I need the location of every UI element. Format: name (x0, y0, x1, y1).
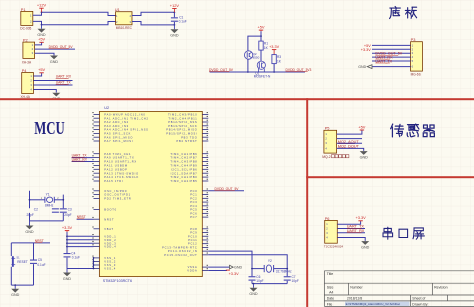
svg-text:TIM2_CH4/PB11: TIM2_CH4/PB11 (168, 116, 197, 120)
svg-text:C5: C5 (38, 258, 42, 262)
svg-text:E:\STM32\MQ2_Alarm\MCU_V2.SchD: E:\STM32\MQ2_Alarm\MCU_V2.SchDoc (346, 302, 401, 306)
svg-text:VDD_1: VDD_1 (104, 234, 116, 238)
svg-text:PA7 SPI1_MOSI: PA7 SPI1_MOSI (104, 139, 133, 143)
svg-text:VSS_4: VSS_4 (104, 267, 116, 271)
svg-text:+5V: +5V (38, 37, 45, 42)
svg-text:MB10-REC: MB10-REC (116, 26, 133, 30)
svg-text:U1: U1 (115, 7, 120, 12)
svg-text:PC15-OSC32_OUT: PC15-OSC32_OUT (164, 253, 197, 257)
svg-text:DVDD_OUT_3V3: DVDD_OUT_3V3 (286, 68, 312, 72)
svg-text:PB13/SPI2_SCK: PB13/SPI2_SCK (168, 124, 197, 128)
svg-text:20pF: 20pF (64, 213, 71, 217)
svg-text:VDDA: VDDA (187, 269, 197, 273)
svg-text:Revision: Revision (434, 285, 447, 289)
svg-text:10pF: 10pF (292, 279, 299, 283)
svg-text:GND: GND (25, 230, 34, 234)
svg-text:PA15 JTDI: PA15 JTDI (104, 179, 123, 183)
svg-text:I2C1_SDA/PB7: I2C1_SDA/PB7 (171, 171, 198, 175)
svg-text:Date: Date (327, 297, 334, 301)
svg-text:PA8 TIM1_CH1: PA8 TIM1_CH1 (104, 152, 131, 156)
svg-text:OSC_IN/PD0: OSC_IN/PD0 (104, 189, 127, 193)
svg-text:Drawn By:: Drawn By: (412, 302, 428, 306)
svg-text:PA1 ADC_IN1 TIM2_CH2: PA1 ADC_IN1 TIM2_CH2 (104, 116, 148, 120)
svg-text:Y1: Y1 (46, 193, 50, 197)
svg-text:32.768KHz: 32.768KHz (276, 269, 292, 273)
svg-text:+3.3V: +3.3V (62, 225, 73, 230)
svg-text:NRST: NRST (35, 239, 44, 243)
svg-text:TIM2_CH1/PB0: TIM2_CH1/PB0 (170, 175, 197, 179)
svg-text:+3.3V: +3.3V (361, 48, 371, 52)
svg-text:PC5: PC5 (190, 208, 197, 212)
svg-text:VSS_2: VSS_2 (104, 260, 116, 264)
svg-text:+3.3V: +3.3V (355, 215, 366, 220)
svg-text:PA9 USART1_TX: PA9 USART1_TX (104, 156, 134, 160)
svg-text:UART_TX: UART_TX (375, 59, 392, 63)
svg-text:Title: Title (327, 272, 334, 276)
svg-text:DVDD_OUT_5V: DVDD_OUT_5V (209, 68, 234, 72)
svg-text:PA14 JTCK-SWCLK: PA14 JTCK-SWCLK (104, 175, 139, 179)
svg-text:VDD_3: VDD_3 (104, 241, 116, 245)
svg-text:VSS_3: VSS_3 (104, 263, 116, 267)
svg-text:PA11 USBDM: PA11 USBDM (104, 163, 128, 167)
svg-text:MQ-2: MQ-2 (322, 155, 331, 159)
svg-text:RESET: RESET (17, 260, 28, 264)
svg-text:PC6: PC6 (190, 211, 197, 215)
svg-text:C3: C3 (68, 208, 72, 212)
svg-text:GND: GND (11, 293, 20, 297)
svg-text:PA12 USBDP: PA12 USBDP (104, 167, 127, 171)
svg-text:MQ2_DOUT: MQ2_DOUT (338, 144, 360, 148)
svg-text:PA2 ADC_IN2: PA2 ADC_IN2 (104, 120, 129, 124)
svg-text:Sheet of: Sheet of (412, 297, 425, 301)
svg-text:BOOT0: BOOT0 (104, 208, 117, 212)
svg-text:VSSA: VSSA (188, 265, 198, 269)
svg-text:A4: A4 (329, 290, 333, 294)
svg-text:GND: GND (361, 246, 370, 250)
svg-text:PC12: PC12 (188, 242, 198, 246)
svg-text:GND: GND (249, 292, 258, 296)
svg-text:PA5 SPI1_SCK: PA5 SPI1_SCK (104, 131, 131, 135)
svg-text:DC-005: DC-005 (20, 27, 31, 31)
svg-text:MOSFET-N: MOSFET-N (254, 75, 271, 79)
svg-text:NRST: NRST (77, 215, 86, 219)
svg-text:TIM2_CH3/PB10: TIM2_CH3/PB10 (168, 112, 197, 116)
svg-text:Size: Size (327, 285, 334, 289)
svg-text:P2: P2 (23, 38, 28, 43)
svg-text:PB3 TDO: PB3 TDO (181, 135, 197, 139)
svg-text:PA10 USART1_RX: PA10 USART1_RX (104, 160, 137, 164)
svg-text:P3: P3 (411, 37, 416, 42)
svg-text:DVDD_OUT_5V: DVDD_OUT_5V (49, 45, 74, 49)
svg-text:PC4: PC4 (190, 204, 197, 208)
svg-text:TJC3224K024: TJC3224K024 (324, 244, 344, 248)
svg-text:+5V: +5V (257, 25, 264, 30)
svg-text:TIM3_CH2/PB5: TIM3_CH2/PB5 (170, 179, 197, 183)
svg-text:U2: U2 (104, 106, 109, 110)
svg-text:P5: P5 (325, 126, 330, 131)
svg-text:Number: Number (350, 285, 363, 289)
svg-text:VBAT: VBAT (104, 227, 114, 231)
svg-text:STM32F103RCT6: STM32F103RCT6 (103, 279, 132, 283)
svg-text:TIM4_CH1/PB6: TIM4_CH1/PB6 (170, 152, 197, 156)
svg-text:PA13 JTMS-SWDIO: PA13 JTMS-SWDIO (104, 171, 139, 175)
svg-text:TIM4_CH3/PB8: TIM4_CH3/PB8 (170, 160, 197, 164)
svg-text:UART_RX: UART_RX (56, 75, 72, 79)
svg-text:NRST: NRST (104, 217, 114, 221)
svg-text:VSS_1: VSS_1 (104, 256, 116, 260)
svg-text:File: File (327, 302, 333, 306)
svg-text:10pF: 10pF (256, 279, 263, 283)
svg-text:TIM4_CH4/PB9: TIM4_CH4/PB9 (170, 163, 197, 167)
svg-text:PC7: PC7 (190, 215, 197, 219)
svg-text:PA6 SPI1_MISO: PA6 SPI1_MISO (104, 135, 133, 139)
svg-text:PB12/SPI2_NSS: PB12/SPI2_NSS (168, 120, 197, 124)
svg-text:P4: P4 (22, 68, 28, 73)
svg-text:P6: P6 (325, 216, 330, 221)
svg-text:C2: C2 (34, 208, 38, 212)
svg-text:P1: P1 (21, 7, 26, 12)
svg-text:GND: GND (50, 60, 59, 64)
svg-text:8550: 8550 (253, 55, 260, 59)
svg-text:PB15/SPI2_MOSI: PB15/SPI2_MOSI (166, 131, 197, 135)
svg-text:I2C1_SCL/PB6: I2C1_SCL/PB6 (171, 167, 198, 171)
svg-text:VDD_2: VDD_2 (104, 238, 116, 242)
svg-text:PC9: PC9 (190, 231, 197, 235)
svg-text:0.1uF: 0.1uF (37, 263, 45, 267)
svg-text:GND: GND (170, 34, 179, 38)
svg-text:PC10: PC10 (188, 234, 198, 238)
svg-text:MG-6S: MG-6S (411, 72, 421, 76)
svg-text:PA4 ADC_IN4 SPI1_NSS: PA4 ADC_IN4 SPI1_NSS (104, 128, 148, 132)
svg-text:PA0-WKUP ADC12_IN0: PA0-WKUP ADC12_IN0 (104, 112, 145, 116)
svg-text:S1: S1 (16, 255, 20, 259)
svg-text:OSC_OUT/PD1: OSC_OUT/PD1 (104, 193, 131, 197)
svg-text:XH-3A: XH-3A (22, 61, 32, 65)
svg-text:MCU: MCU (34, 118, 65, 138)
svg-text:GND: GND (360, 156, 369, 160)
svg-text:PC2: PC2 (190, 196, 197, 200)
svg-text:PB14/SPI2_MISO: PB14/SPI2_MISO (166, 128, 197, 132)
svg-text:+5V: +5V (38, 67, 45, 72)
svg-text:GND: GND (358, 65, 366, 69)
svg-text:UART_RX: UART_RX (347, 229, 365, 233)
svg-text:GND: GND (63, 277, 72, 281)
svg-text:0.1uF: 0.1uF (72, 255, 80, 259)
svg-text:PC1: PC1 (190, 193, 197, 197)
svg-text:8MHz: 8MHz (45, 204, 54, 208)
svg-text:PC3: PC3 (190, 200, 197, 204)
svg-text:DVDD_OUT_5V: DVDD_OUT_5V (215, 187, 240, 191)
svg-text:PB4 NTRST: PB4 NTRST (176, 139, 197, 143)
svg-text:UART_RX: UART_RX (72, 157, 88, 161)
svg-text:PC8: PC8 (190, 227, 197, 231)
svg-text:VDD_4: VDD_4 (104, 245, 116, 249)
svg-text:Y2: Y2 (268, 259, 272, 263)
svg-text:GND: GND (234, 266, 243, 270)
svg-text:0.1uF: 0.1uF (179, 19, 187, 23)
svg-text:PD2 TIM3_ETR: PD2 TIM3_ETR (104, 196, 131, 200)
svg-text:+5V: +5V (358, 124, 365, 129)
svg-text:PC0: PC0 (190, 189, 197, 193)
svg-text:UART_TX: UART_TX (56, 81, 72, 85)
svg-text:2018/11/8: 2018/11/8 (347, 297, 362, 301)
svg-text:PA3 ADC_IN3: PA3 ADC_IN3 (104, 124, 129, 128)
svg-text:+12V: +12V (170, 3, 180, 8)
svg-text:PC13-TAMPER-RTC: PC13-TAMPER-RTC (162, 245, 197, 249)
svg-text:+3.3V: +3.3V (269, 45, 279, 49)
svg-text:20pF: 20pF (27, 213, 34, 217)
svg-text:+3.3V: +3.3V (229, 272, 239, 276)
svg-text:PC11: PC11 (188, 238, 197, 242)
svg-text:+12V: +12V (37, 3, 47, 8)
svg-text:TIM4_CH2/PB7: TIM4_CH2/PB7 (170, 156, 197, 160)
svg-text:PC14-OSC32_IN: PC14-OSC32_IN (168, 249, 198, 253)
